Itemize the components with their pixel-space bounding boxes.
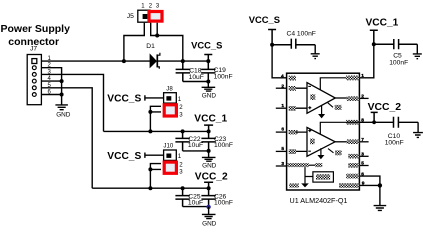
resistor pulldown (313, 172, 334, 182)
connector J7 (27, 46, 41, 105)
op-amp A vcc wire (320, 78, 346, 90)
junction J10 bus (148, 186, 152, 190)
wire J5 pin2 (151, 23, 158, 36)
svg-text:J5: J5 (127, 13, 134, 20)
svg-text:2: 2 (281, 84, 284, 90)
svg-text:VCC_S: VCC_S (107, 94, 141, 105)
op-amp B output wire (335, 141, 347, 143)
svg-text:GND: GND (202, 162, 217, 169)
wire J7 pin5 to VCC_2 bus (41, 88, 92, 188)
op-amp B vee tick (328, 149, 334, 153)
capacitor C19 (201, 61, 232, 81)
svg-text:5: 5 (281, 146, 284, 152)
op-amp A output wire (335, 97, 347, 99)
svg-text:100nF: 100nF (214, 73, 233, 80)
svg-text:3: 3 (179, 111, 183, 118)
junction U1 gnd (378, 183, 382, 187)
title Power Supply connector (1, 23, 71, 48)
jumper J10 (163, 143, 183, 176)
junction VCC_S C4 (270, 43, 274, 47)
pad name box bottom left (289, 183, 299, 187)
op-amp B vcc wire (320, 122, 359, 134)
junction C19 VCC_S (206, 59, 210, 63)
jumper J5 red shunt pins 2-3 (149, 12, 162, 22)
port VCC_S to J10 (107, 151, 163, 162)
capacitor C10 (385, 117, 404, 147)
wire cap bottoms VCC_2 (183, 206, 209, 208)
ground C5 (413, 44, 422, 59)
wire VCC_S to U1 (272, 45, 287, 78)
jumper J5 (127, 3, 160, 22)
wire J10 pin3 (150, 169, 161, 188)
U1 left pin numbers (281, 73, 284, 167)
svg-text:D1: D1 (146, 43, 155, 50)
EN net to pulldown (305, 167, 313, 183)
svg-text:1: 1 (281, 103, 284, 109)
op-amp U1 body (287, 73, 360, 190)
wire J7 pin4 (41, 80, 61, 82)
node VCC_S top (191, 39, 222, 61)
svg-text:Power Supply: Power Supply (1, 23, 71, 35)
junction C22 (181, 129, 185, 133)
capacitor C5 (374, 39, 418, 67)
jumper J8 red shunt pins 2-3 (164, 105, 176, 116)
wire VCC_2 bus (92, 187, 208, 189)
svg-text:2: 2 (179, 104, 183, 111)
svg-text:10uF: 10uF (188, 200, 203, 207)
node VCC_2 right (368, 102, 402, 122)
svg-text:J10: J10 (163, 143, 173, 150)
port VCC_S to J8 (107, 94, 163, 105)
junction C18 (181, 59, 185, 63)
junction J8 pins2-3 (148, 110, 152, 114)
junction J8 bus (148, 129, 152, 133)
svg-text:J8: J8 (166, 85, 173, 92)
svg-text:VCC_2: VCC_2 (368, 102, 402, 113)
junction gnd VCC_2 (206, 205, 210, 209)
diode D1 (146, 43, 183, 69)
ground VCC_1 group (202, 151, 217, 170)
junction J7 pin4 (60, 79, 64, 83)
svg-text:2: 2 (361, 94, 364, 100)
svg-text:100nF: 100nF (385, 139, 404, 146)
svg-text:GND: GND (56, 112, 71, 119)
junction C26 (207, 186, 211, 190)
svg-text:VCC_2: VCC_2 (195, 171, 228, 182)
op-amp A vee tick (328, 103, 333, 108)
svg-text:100nF: 100nF (214, 142, 233, 149)
capacitor C22 (175, 131, 203, 151)
wire J5 pin1 to main wire (124, 23, 144, 61)
jumper J8 (164, 85, 184, 118)
ground U1 (374, 206, 387, 211)
svg-text:1: 1 (178, 96, 182, 103)
svg-text:8: 8 (361, 118, 364, 124)
wire J8 pin3 (150, 112, 161, 131)
svg-text:VCC_S: VCC_S (191, 39, 222, 50)
junction J7 pin6 (60, 93, 64, 97)
wire J7 pin1 to D1 (41, 60, 150, 62)
junction J10 pins2-3 (148, 167, 152, 171)
wire VCC_1 bus (104, 130, 209, 132)
svg-text:3: 3 (281, 161, 284, 167)
capacitor C4 (272, 31, 316, 49)
svg-text:4: 4 (281, 73, 284, 79)
junction VCC_2 C10 (372, 120, 376, 124)
jumper J10 red shunt pins 2-3 (164, 162, 176, 173)
svg-text:3: 3 (179, 169, 183, 176)
op-amp A input wires (296, 88, 307, 108)
svg-text:6: 6 (281, 127, 284, 133)
ground C4 (311, 45, 320, 59)
wire cap bottoms VCC_1 (183, 150, 209, 152)
EN gnd arrow (301, 183, 309, 187)
wire to ground (379, 185, 381, 205)
svg-text:C4 100nF: C4 100nF (287, 31, 316, 38)
J7 pin numbers 1-6 (48, 56, 52, 96)
svg-text:VCC_1: VCC_1 (194, 113, 227, 124)
svg-text:1: 1 (361, 73, 364, 79)
wire VCC_S row (183, 60, 209, 62)
wire J7 pin3 to VCC_1 bus (41, 74, 103, 131)
wire J5 pin3 to VCC_S node (157, 23, 183, 61)
op-amp B triangle (307, 127, 335, 156)
op-amp A triangle (307, 83, 335, 114)
svg-text:10uF: 10uF (188, 142, 203, 149)
wire J10 pin2 (150, 164, 161, 170)
wire J8 pin2 (150, 106, 161, 112)
wire VCC_1 to U1 (359, 44, 373, 78)
svg-text:VCC_S: VCC_S (107, 151, 141, 162)
svg-text:VCC_1: VCC_1 (366, 18, 399, 29)
wire J7 pin6 (41, 94, 61, 96)
EN wire (309, 164, 315, 166)
svg-text:C5: C5 (393, 52, 402, 59)
junction gnd VCC_1 (207, 149, 211, 153)
wire U1 gnd pin upper (359, 176, 380, 185)
capacitor C26 (201, 188, 233, 206)
node VCC_1 right (366, 18, 399, 45)
U1 right pin name boxes (339, 76, 359, 188)
wire U1 gnd pin lower (359, 184, 380, 186)
U1 right pin stubs (359, 98, 368, 165)
junction gnd VCC_S (206, 80, 210, 84)
svg-text:J7: J7 (30, 46, 37, 53)
junction C25 (181, 186, 185, 190)
capacitor C18 (176, 61, 204, 81)
op-amp B gnd arrow (320, 148, 322, 155)
wire J7 pin2 to ground (41, 68, 61, 105)
ground VCC_2 group (202, 207, 217, 228)
junction J5 pins2-3 (155, 34, 159, 38)
node VCC_1 left (194, 113, 227, 131)
svg-text:VCC_S: VCC_S (249, 14, 280, 25)
U1 left pin name boxes (289, 76, 298, 154)
node VCC_2 left (195, 171, 228, 188)
svg-text:7: 7 (361, 137, 364, 143)
junction VCC_1 C5 (372, 42, 376, 46)
ground J7 (55, 105, 70, 119)
svg-text:2: 2 (179, 161, 183, 168)
ground VCC_S group (202, 82, 217, 100)
svg-text:10uF: 10uF (189, 74, 204, 81)
svg-text:U1 ALM2402F-Q1: U1 ALM2402F-Q1 (290, 196, 348, 205)
svg-text:5: 5 (361, 161, 364, 167)
svg-text:100nF: 100nF (214, 200, 233, 207)
svg-text:GND: GND (202, 92, 217, 99)
svg-text:1: 1 (178, 153, 182, 160)
node VCC_S right (249, 14, 280, 45)
op-amp A gnd arrow (321, 106, 323, 115)
svg-text:3: 3 (361, 152, 364, 158)
svg-text:GND: GND (202, 221, 217, 228)
capacitor C25 (175, 188, 203, 206)
U1 EN pin name bar (288, 163, 309, 167)
capacitor C23 (201, 131, 233, 151)
wire U1 to VCC_2 C10 (359, 121, 418, 123)
wire cap bottoms VCC_S (183, 81, 209, 83)
op-amp B input wires (296, 132, 307, 151)
junction C23 (207, 129, 211, 133)
U1 right pin numbers (361, 73, 365, 186)
ground C10 (413, 122, 423, 137)
svg-text:100nF: 100nF (389, 60, 408, 67)
junction main wire J5 pin1 (122, 59, 126, 63)
U1 left pin stubs (276, 88, 287, 166)
